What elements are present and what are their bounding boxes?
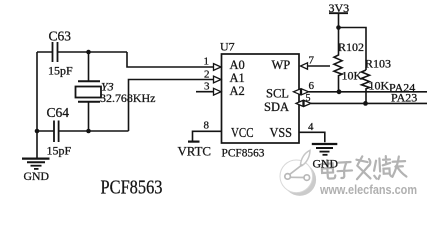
wire: pin4 VSS lead xyxy=(299,132,325,142)
svg-text:A0: A0 xyxy=(230,58,245,72)
left vertical wire xyxy=(36,52,38,131)
svg-text:C63: C63 xyxy=(49,29,72,44)
svg-text:C64: C64 xyxy=(47,105,70,120)
svg-text:8: 8 xyxy=(204,120,210,132)
wire: pin1 lead xyxy=(127,52,214,67)
node: SCL-R102 junction xyxy=(337,89,342,94)
svg-text:5: 5 xyxy=(306,93,311,104)
IC U7 PCF8563 box xyxy=(222,54,300,143)
svg-text:R103: R103 xyxy=(365,57,391,71)
svg-text:10K: 10K xyxy=(342,69,363,83)
pin 5 double arrowhead xyxy=(296,100,311,106)
wire: pin8 VCC lead xyxy=(193,131,222,141)
svg-text:7: 7 xyxy=(309,55,315,67)
wire: pin3 stub xyxy=(196,91,214,93)
svg-text:1: 1 xyxy=(204,56,210,68)
watermark logo circle xyxy=(280,150,316,196)
watermark text dianzifashaoyou xyxy=(321,154,406,182)
node: bus-left junction xyxy=(35,129,40,134)
capacitor C63 xyxy=(53,42,58,62)
svg-text:10K: 10K xyxy=(369,79,390,93)
svg-text:SCL: SCL xyxy=(266,87,289,101)
node: crystal bottom junction xyxy=(86,129,91,134)
svg-text:VSS: VSS xyxy=(270,125,293,140)
pin 6 double arrowhead xyxy=(294,89,309,95)
svg-text:2: 2 xyxy=(204,69,210,81)
svg-text:A1: A1 xyxy=(230,71,245,85)
svg-text:PCF8563: PCF8563 xyxy=(222,146,265,160)
svg-text:PA23: PA23 xyxy=(391,90,417,104)
ground (right) xyxy=(312,143,338,145)
wire: top rail y=52 xyxy=(37,51,127,53)
wire: bottom bus y=131 xyxy=(37,130,129,132)
svg-text:PCF8563: PCF8563 xyxy=(101,177,163,199)
svg-text:SDA: SDA xyxy=(264,100,289,114)
pin 1 arrowhead xyxy=(214,64,222,71)
pin 3 arrowhead xyxy=(214,88,222,95)
svg-text:www.elecfans.com: www.elecfans.com xyxy=(319,183,417,197)
svg-text:VRTC: VRTC xyxy=(178,144,212,159)
svg-text:3: 3 xyxy=(204,81,210,93)
svg-text:U7: U7 xyxy=(220,40,235,54)
svg-text:15pF: 15pF xyxy=(47,144,72,158)
svg-text:15pF: 15pF xyxy=(48,64,73,78)
svg-text:6: 6 xyxy=(309,80,315,92)
node: SDA-R103 junction xyxy=(363,101,368,106)
capacitor C64 xyxy=(54,121,59,143)
svg-text:WP: WP xyxy=(272,58,291,72)
node: crystal top junction xyxy=(86,50,91,55)
pin 2 arrowhead xyxy=(214,76,222,83)
resistor R103 xyxy=(362,70,370,103)
ground (left) xyxy=(36,131,38,158)
svg-text:R102: R102 xyxy=(338,40,364,54)
wire: SCL net xyxy=(309,91,427,93)
svg-text:GND: GND xyxy=(24,171,50,183)
node: 3V3 junction xyxy=(336,25,341,30)
VRTC terminal bar xyxy=(188,141,200,143)
wire: 3V3 branch to R103 xyxy=(339,28,367,71)
svg-text:GND: GND xyxy=(313,159,339,171)
svg-text:VCC: VCC xyxy=(231,125,254,140)
resistor R102 xyxy=(334,28,342,92)
wire: pin7 WP lead xyxy=(308,65,331,67)
pin 7 arrowhead xyxy=(301,63,308,69)
crystal Y3 xyxy=(88,52,90,81)
wire: SDA net xyxy=(311,102,427,104)
svg-text:A2: A2 xyxy=(230,84,245,98)
svg-text:4: 4 xyxy=(308,121,314,133)
wire: pin2 lead xyxy=(129,80,215,132)
